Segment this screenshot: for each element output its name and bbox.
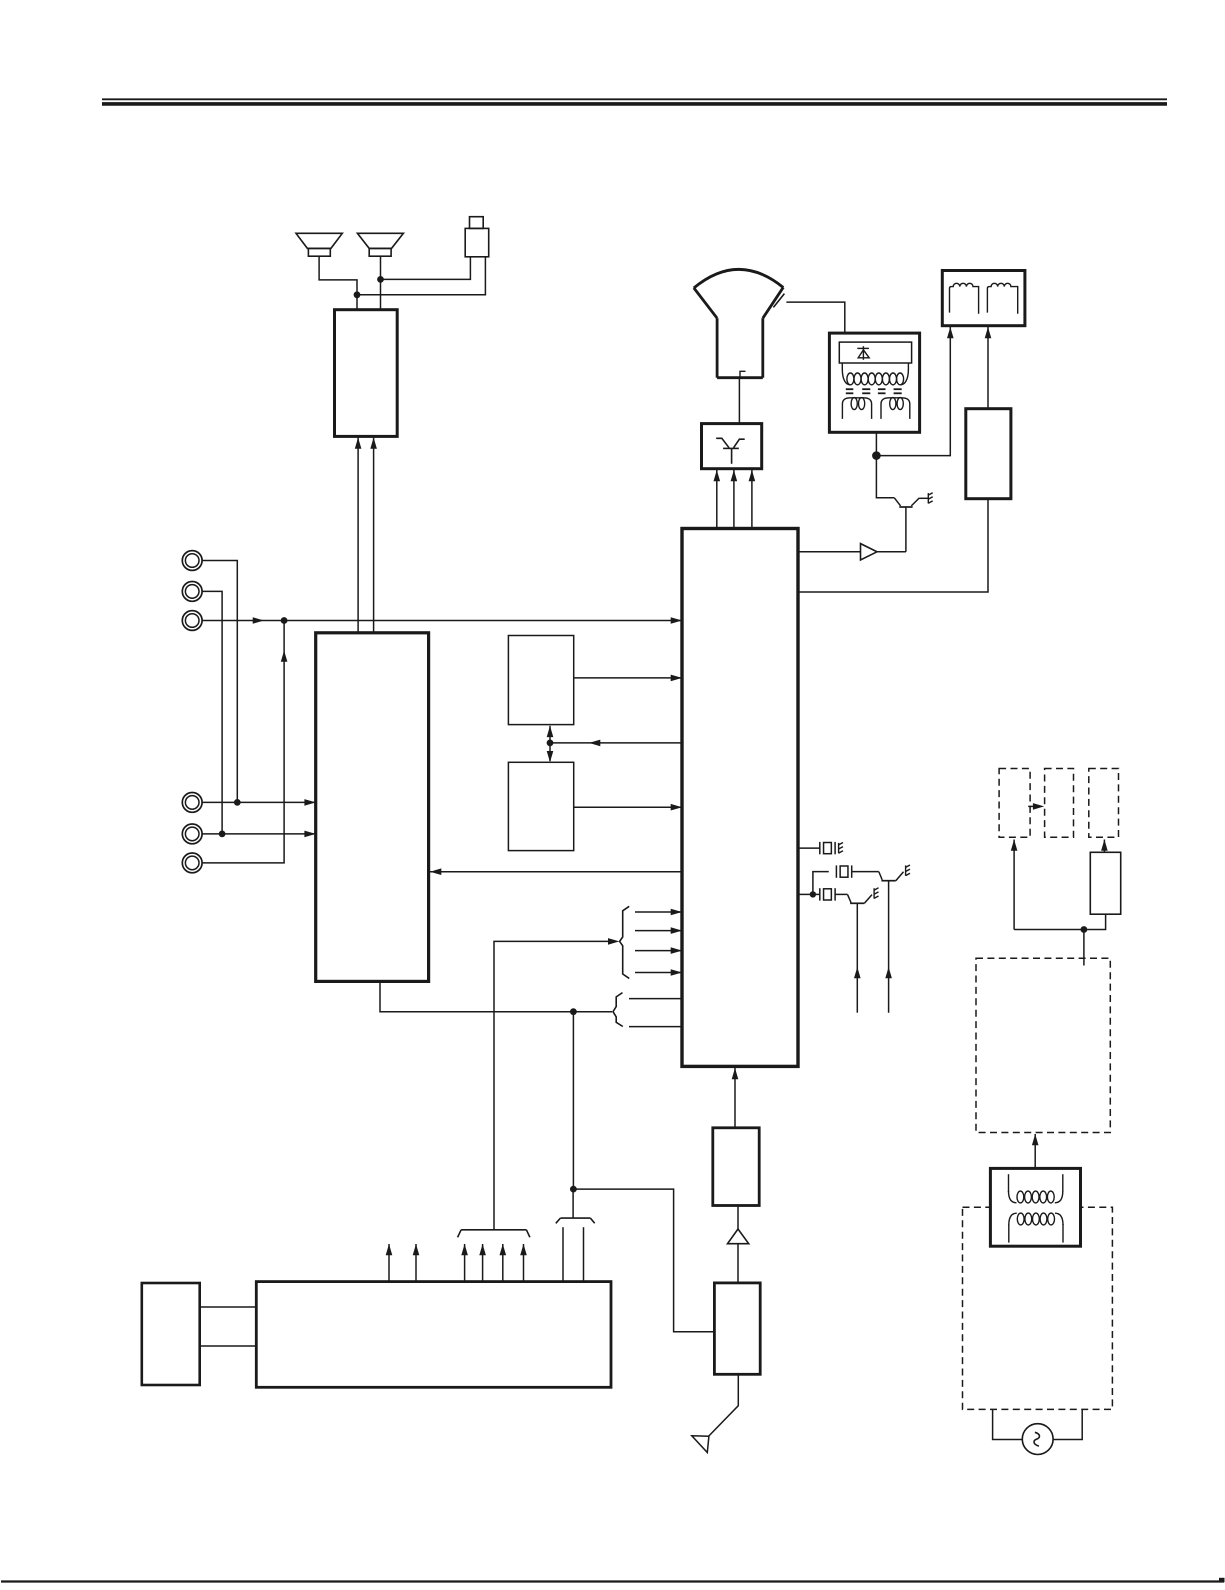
wire headphone right pin [357,257,485,295]
wire IC osc pin [798,893,813,895]
flyback transformer FBT box [829,333,919,432]
RCA jack J5 audio out L [182,824,202,844]
wire driver to CRT [738,378,740,424]
transistor Q3 [881,872,903,1013]
H-drive block [966,409,1011,499]
picture tube CRT [694,269,784,377]
wire micro bus x502 [500,1244,507,1282]
wire FBT bottom pin [875,432,877,455]
wire RGB drive x751 [749,470,756,529]
wire IC to resonator X1 [798,847,820,849]
wire micro bus x523 [520,1244,527,1282]
wire bus1 line y912 [635,909,682,916]
wire J5 to main block [202,831,316,838]
wire transformer to PSU [1032,1134,1039,1168]
wire IC to H-drive [798,499,988,592]
junction node speaker bus B [377,276,384,283]
FBT secondary winding 2 [881,398,910,419]
wire reset a [200,1306,257,1308]
dashed box heater [999,769,1030,838]
wire micro bus x464 [461,1244,468,1282]
wire tuning line b [583,1227,585,1281]
T1 primary winding [1009,1174,1063,1203]
wire RGB drive x733 [731,470,738,529]
wire H-drive to DY [985,327,992,409]
dashed power supply box [976,958,1110,1132]
wire RGB drive x716 [714,470,721,529]
tuner block [714,1283,760,1374]
wire J1 down [202,561,237,803]
wire SP2 to audio amp [380,256,382,310]
wire FBT node to H-out [876,456,894,498]
transistor Q2 [850,895,872,1013]
brace tuning bus [556,1218,595,1223]
AC source symbol [1022,1424,1053,1455]
brace bus group 2 [613,993,623,1027]
wire X3 to Q2 [835,894,851,902]
junction node osc [810,891,816,897]
video driver transistor symbol [716,438,745,464]
wire IC to bus [550,740,682,747]
wire AFT to tuner [573,1189,714,1332]
wire micro out 1 [386,1244,393,1282]
wire X2 to Q3 [852,872,883,880]
junction node FBT out [872,451,881,460]
junction node J2/J5 [219,831,226,838]
wire reset b [200,1345,257,1347]
wire micro out 2 [413,1244,420,1282]
dashed box C [1089,769,1119,838]
wire feed to bus1 [494,938,619,1230]
video chroma block [316,633,429,982]
CRT electron gun mark [740,371,746,377]
RCA jack J4 video out [182,793,202,813]
dashed AC input box [963,1207,1113,1409]
main IC block [682,529,798,1067]
wire feed2 vertical [572,1012,574,1189]
wire feed2 to bus2 [573,1011,612,1013]
speaker SP1 [296,233,342,256]
DY coil 1 [950,283,979,313]
crystal X3 [820,888,835,900]
speaker SP2 [357,233,403,256]
antenna symbol [692,1436,709,1453]
wire bus1 line y950 [635,947,682,954]
dashed box B [1045,769,1074,838]
wire bus1 line y972 [635,969,682,976]
IF amp block [713,1128,759,1206]
T1 secondary winding [1009,1213,1063,1243]
wire tuner to antenna [709,1374,739,1436]
wire audio L from main block [355,438,362,633]
page header double rule (thin) [102,98,1167,100]
wire J3 to IC [202,617,682,624]
junction node AFT [570,1186,577,1193]
microcontroller block [256,1282,611,1388]
CRT anode cap mark [773,294,784,308]
brace micro bus [458,1230,530,1238]
wire IF to IC [732,1068,739,1128]
wire preamp to tuner [737,1244,739,1283]
junction node bus mid [547,740,554,747]
regulator block [1090,852,1120,914]
wire micro bus x482 [479,1244,486,1282]
wire SP1 to audio amp [319,256,357,310]
page header double rule (thick) [102,102,1167,106]
brace bus group 1 [620,906,630,978]
FBT secondary winding 1 [842,398,871,419]
page footer rule [1,1578,1225,1583]
audio output amp block [335,310,398,437]
wire bus1 line y930 [635,927,682,934]
DY coil 2 [987,283,1017,313]
ground Q1 [928,493,932,504]
wire osc up branch [813,872,829,895]
wire supply into PSU [1083,930,1085,966]
junction node supply [1081,926,1088,933]
junction node feed2 [570,1008,577,1015]
headphone jack [465,217,489,257]
transistor Q1 H-out [894,498,928,552]
wire video block to bus2 [380,981,573,1011]
wire J6 up to J3 net [202,621,287,863]
junction node J3 [281,617,288,624]
junction node J1/J4 [234,799,241,806]
memory box 2 [508,762,573,850]
wire IF to preamp [737,1206,739,1230]
RCA jack J1 video in [182,551,202,571]
buffer amp triangle [861,544,878,560]
wire osc right branch [813,893,820,895]
ground Q2 [874,888,878,899]
FBT HV rectifier rect [839,342,911,363]
wire J2 down [202,591,222,834]
video driver block [702,424,762,469]
resonator X1 [820,842,835,854]
wire regulator to C [1101,840,1108,853]
preamp triangle [728,1229,749,1244]
wire IC to video block [430,868,682,875]
wire bus2 line a [629,998,682,1000]
wire buffer to Q1 [877,551,906,553]
crystal X2 [836,865,851,877]
wire bus2 line b [629,1026,682,1028]
wire box2 to IC [574,804,682,811]
wire AC left [993,1409,1023,1439]
wire headphone left pin [381,257,471,280]
wire anode to FBT [786,302,844,333]
deflection yoke DY box [942,271,1025,326]
reset block [142,1283,200,1385]
memory box 1 [508,636,573,725]
ground X1 [839,843,843,854]
RCA jack J6 audio out R [182,853,202,873]
wire box1 to IC [574,675,682,682]
arrow heater to B [1028,803,1044,810]
wire brace to AFT node [572,1189,574,1218]
FBT HV diode [857,346,869,360]
wire FBT node to DY [876,327,953,456]
junction node speaker bus A [354,291,361,298]
wire supply to heater [1011,840,1018,930]
FBT core [846,389,902,393]
wire J4 to main block [202,799,316,806]
wire AC right [1053,1409,1082,1439]
wire tuning line a [562,1227,564,1281]
wire regulator bottom [1014,914,1106,929]
wire IC to buffer [798,551,861,553]
RCA jack J3 audio in R [182,611,202,631]
ground Q3 [906,865,910,876]
wire box1-box2 bus [547,726,554,763]
RCA jack J2 audio in L [182,582,202,602]
wire audio R from main block [370,438,377,633]
FBT primary winding [842,363,908,385]
power transformer T1 box [990,1168,1080,1246]
